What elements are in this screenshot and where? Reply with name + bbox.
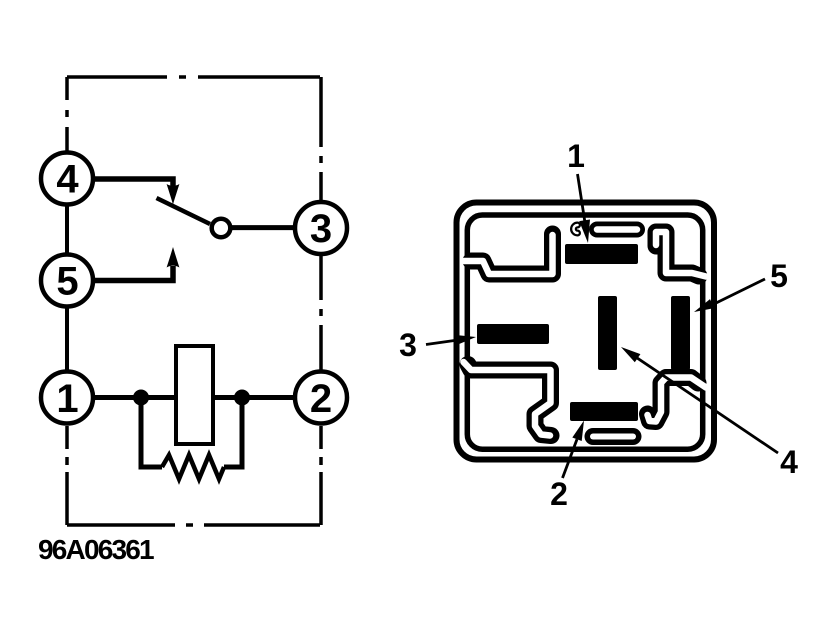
svg-text:4: 4 (56, 158, 79, 202)
hook top-right white (656, 232, 706, 277)
arrowhead at pin 4 (621, 347, 640, 362)
switch blade S1 (157, 198, 211, 224)
arrowhead at pin 3 (456, 335, 477, 345)
pin 1 terminal slot (565, 244, 638, 264)
arrowhead at pin 5 (694, 299, 714, 312)
wire terminal 4 to switch contact (94, 179, 173, 186)
terminal circle 3 (295, 202, 347, 254)
svg-text:2: 2 (310, 377, 332, 421)
arrow line to pin 4 (635, 357, 778, 454)
svg-text:5: 5 (56, 260, 78, 304)
pin 3 terminal slot (477, 324, 549, 344)
connector outer rim line (457, 203, 715, 460)
arrow line to pin 1 (578, 174, 586, 226)
pin 4 terminal slot (598, 296, 617, 370)
connector inner rim line (467, 215, 702, 449)
contact arrowhead on terminal 5 wire (167, 247, 180, 268)
terminal circle 5 (41, 255, 93, 307)
dash-dot border right upper (319, 77, 323, 201)
hook top-right black (656, 232, 699, 276)
arrowhead at pin 1 (579, 220, 590, 244)
slot below pin2 black (593, 428, 633, 445)
hook bottom-right white (648, 378, 707, 422)
c-mark near pin1 black (574, 225, 578, 233)
switch common contact pivot (212, 219, 231, 238)
slot below pin2 white (593, 434, 633, 440)
svg-text:1: 1 (567, 138, 585, 174)
dash-dot border bottom (67, 523, 321, 527)
dash-dot border right lower (319, 426, 323, 525)
pin 2 terminal slot (570, 402, 638, 421)
wire terminal 1 to terminal 2 (94, 395, 294, 400)
svg-text:5: 5 (770, 258, 788, 294)
arrowhead at pin 2 (572, 421, 584, 442)
terminal circle 4 (41, 153, 93, 205)
slot above pin1 white (597, 226, 637, 233)
arrow line to pin 3 (426, 340, 458, 345)
wire left junction to resistor (141, 398, 162, 468)
hook bottom-left white (464, 362, 551, 436)
hook bottom-left black (468, 365, 551, 436)
svg-text:96A06361: 96A06361 (38, 534, 154, 565)
dash-dot border top (67, 75, 321, 79)
dash-dot border left upper (65, 77, 69, 153)
svg-text:1: 1 (56, 377, 78, 421)
slot above pin1 black (597, 222, 637, 238)
arrow line to pin 2 (563, 439, 578, 478)
hook bottom-right black (648, 378, 699, 422)
hook top-left white (464, 235, 553, 274)
wire switch pivot to terminal 3 (232, 225, 294, 230)
dash-dot border left lower (65, 426, 69, 525)
wire terminal 4 to terminal 5 (65, 179, 69, 281)
svg-text:3: 3 (399, 327, 417, 363)
terminal circle 2 (295, 372, 347, 424)
hook top-left black (471, 234, 553, 274)
junction dot B (234, 390, 250, 406)
c-mark near pin1 white (574, 225, 578, 233)
pin 5 terminal slot (671, 296, 690, 370)
junction dot A (133, 390, 149, 406)
resistor R1 zigzag (162, 455, 224, 479)
wire terminal 5 to switch contact (94, 266, 173, 281)
wire terminal 5 to terminal 1 (65, 281, 69, 398)
svg-text:4: 4 (780, 444, 798, 480)
dash-dot border right middle (319, 256, 323, 370)
terminal circle 1 (41, 372, 93, 424)
relay coil L1 (176, 346, 213, 444)
contact arrowhead on terminal 4 wire (167, 184, 180, 205)
arrow line to pin 5 (714, 279, 765, 304)
svg-text:2: 2 (550, 476, 568, 512)
svg-text:3: 3 (310, 207, 332, 251)
wire resistor to right junction (224, 398, 242, 468)
